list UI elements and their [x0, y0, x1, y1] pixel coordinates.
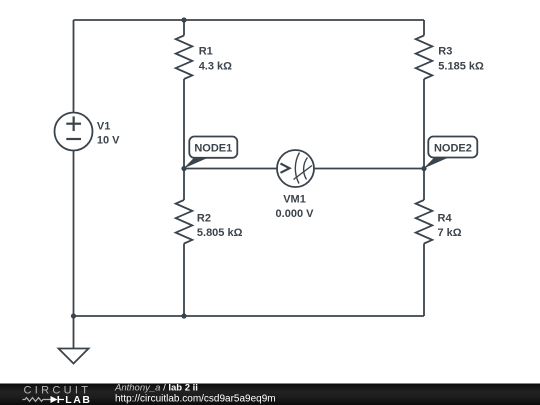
svg-text:R4: R4 — [438, 212, 453, 224]
svg-text:R2: R2 — [197, 212, 211, 224]
junction dot node1 — [181, 166, 186, 171]
junction dot node2 — [421, 166, 426, 171]
wire ground stem — [73, 316, 75, 349]
wire mid column below R2 — [183, 244, 185, 317]
svg-text:R3: R3 — [438, 46, 452, 58]
svg-text:5.185 kΩ: 5.185 kΩ — [438, 60, 484, 72]
wire bottom rail — [74, 315, 425, 317]
VM1 meter arcs — [294, 153, 313, 184]
junction dot bottom mid — [181, 313, 186, 318]
logo diode wire — [59, 399, 64, 401]
svg-text:R1: R1 — [199, 46, 213, 58]
svg-text:VM1: VM1 — [283, 194, 306, 206]
svg-text:V1: V1 — [97, 120, 110, 132]
svg-text:4.3 kΩ: 4.3 kΩ — [199, 60, 232, 72]
svg-text:NODE1: NODE1 — [194, 143, 232, 155]
svg-text:10 V: 10 V — [97, 134, 120, 146]
junction dot bottom left — [71, 313, 76, 318]
logo resistor squiggle — [23, 398, 51, 402]
V1 plus sign — [66, 116, 81, 131]
svg-text:LAB: LAB — [65, 394, 91, 405]
wire right rail between R3 and node2 — [423, 79, 425, 200]
node NODE2 flag box — [428, 137, 477, 158]
ground — [59, 349, 89, 364]
svg-text:Anthony_a / lab 2 ii: Anthony_a / lab 2 ii — [114, 382, 198, 393]
resistor R3 — [416, 36, 433, 80]
node NODE2 flag pointer — [424, 158, 449, 169]
svg-text:NODE2: NODE2 — [434, 143, 472, 155]
resistor R1 — [176, 36, 193, 80]
node NODE1 flag pointer — [184, 158, 209, 169]
wire top rail — [74, 19, 425, 21]
V1 minus sign — [66, 138, 81, 140]
resistor R4 — [416, 200, 433, 244]
voltmeter VM1 — [277, 150, 314, 187]
voltage source V1 — [55, 113, 93, 151]
wire node1 to voltmeter — [184, 168, 277, 170]
wire mid column between R1 and node1 — [183, 79, 185, 200]
wire voltmeter to node2 — [314, 168, 424, 170]
svg-text:7 kΩ: 7 kΩ — [438, 227, 462, 239]
wire right rail top stub — [423, 20, 425, 36]
logo diode — [51, 396, 60, 403]
wire left rail upper — [73, 20, 75, 113]
node NODE1 flag box — [189, 137, 237, 158]
svg-text:http://circuitlab.com/csd9ar5a: http://circuitlab.com/csd9ar5a9eq9m — [115, 394, 276, 405]
VM1 arrow glyph — [281, 164, 290, 173]
junction dot top — [181, 17, 186, 22]
wire right rail below R4 — [423, 244, 425, 317]
svg-text:5.805 kΩ: 5.805 kΩ — [197, 227, 243, 239]
wire left rail lower — [73, 151, 75, 317]
svg-text:0.000 V: 0.000 V — [276, 208, 315, 220]
resistor R2 — [176, 200, 193, 244]
wire mid column top stub — [183, 20, 185, 36]
